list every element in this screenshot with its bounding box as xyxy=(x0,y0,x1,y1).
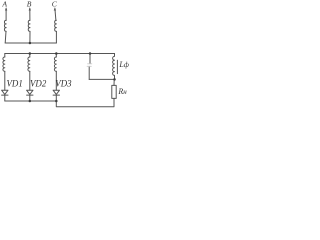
svg-text:VD1: VD1 xyxy=(7,78,23,88)
svg-text:Rн: Rн xyxy=(117,87,127,96)
svg-text:A: A xyxy=(1,0,7,9)
svg-text:VD2: VD2 xyxy=(30,78,47,88)
svg-text:VD3: VD3 xyxy=(55,78,72,88)
svg-text:B: B xyxy=(27,0,32,9)
svg-text:Lф: Lф xyxy=(118,60,128,69)
